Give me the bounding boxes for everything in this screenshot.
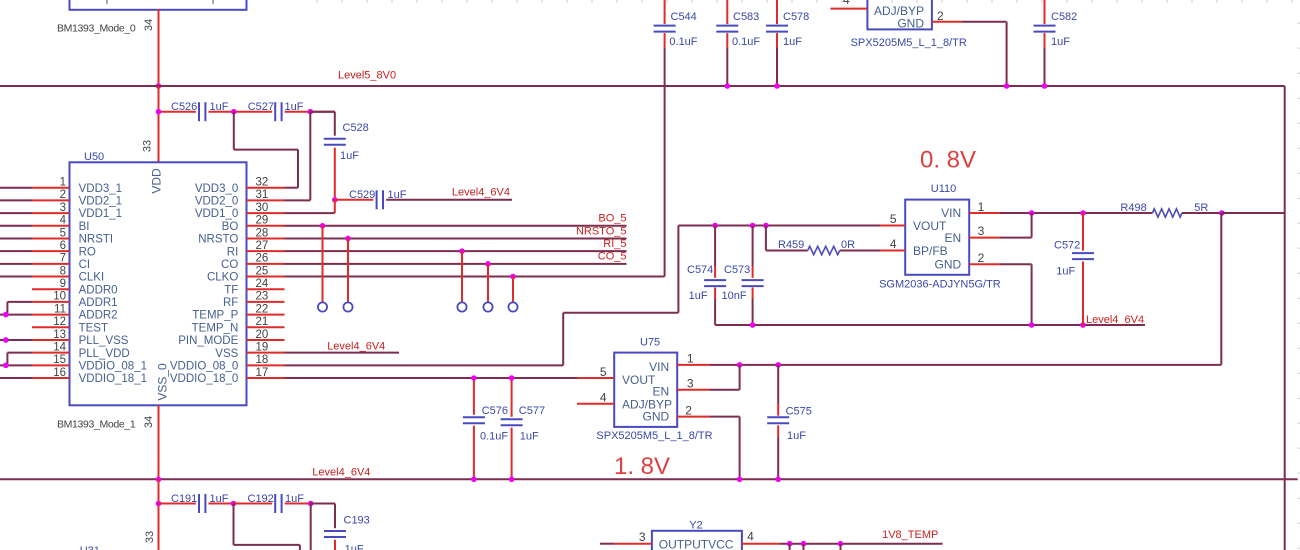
svg-text:PIN_MODE: PIN_MODE [178,335,238,347]
svg-text:2: 2 [978,251,985,265]
junction C578 on bus [774,83,780,89]
svg-text:28: 28 [256,227,269,239]
U110 pin 1 VIN wire [969,212,1152,214]
wire ADDR2 pin11 from left edge [0,314,32,316]
svg-text:C583: C583 [733,11,759,23]
svg-text:U75: U75 [640,337,660,349]
wire local rail under U110 with net label [715,324,1145,326]
svg-text:Level4_6V4: Level4_6V4 [1086,314,1144,326]
chip U? BM1393_Mode_0 (partial, cut at top) [57,0,247,35]
svg-text:BP/FB: BP/FB [913,244,948,258]
wire VDDIO_08_1 pin15 from left edge [0,364,32,366]
svg-text:BM1393_Mode_0: BM1393_Mode_0 [57,23,136,35]
junction C577 top on VDDIO_18_0 net [509,375,515,381]
svg-text:3: 3 [687,377,694,391]
capacitor C577 column [501,378,545,479]
svg-text:1uF: 1uF [689,290,708,302]
wire TEST/PLL_VSS pin13 from left edge [0,339,32,341]
junction test-point drop 4 [485,261,491,267]
capacitor C573 [722,226,764,326]
svg-text:CI: CI [79,259,91,271]
svg-text:CO_5: CO_5 [598,251,627,263]
svg-text:TEMP_N: TEMP_N [192,322,239,334]
wire drop 2 [803,544,805,550]
test point TP3 open circle [457,302,466,311]
junction C583 on bus [725,83,731,89]
svg-text:U31: U31 [80,545,100,550]
U75 pin 4 ADJ/BYP stub [577,403,614,405]
svg-text:TEST: TEST [79,322,108,334]
U75 pin 1 VIN wire [677,364,1221,366]
wire test-point drop 4 [487,264,489,302]
junction C528 bottom / C529 row [332,197,338,203]
svg-text:GND: GND [643,410,670,424]
svg-text:1uF: 1uF [210,101,229,113]
capacitor C528 [324,122,369,200]
svg-text:5: 5 [600,365,607,379]
U75 pin 5 stub [577,377,614,379]
resistor R459 0R wire to U110 pin4 BP/FB [766,226,905,255]
svg-text:U110: U110 [931,183,956,195]
test point TP1 open circle [318,302,327,311]
junction R459 branch [763,223,769,229]
junction EN tie on VIN net [1029,210,1035,216]
test point TP2 open circle [343,302,352,311]
junction C526-C527 [231,109,237,115]
svg-text:10nF: 10nF [722,290,747,302]
svg-text:RO: RO [79,246,96,258]
U110 pin 2 GND wire down to local ground rail [969,264,1031,325]
wire from C526-C527 junction to pin 32 VDD3_0 [234,112,298,188]
wire CO pin26 net to label CO_5 [285,263,627,265]
junction U75 EN tie [737,362,743,368]
svg-text:VDD: VDD [150,168,164,194]
capacitor C529 and net stub Level4_6V4 [335,189,512,209]
svg-text:ADDR0: ADDR0 [79,284,118,296]
wire R498 output to right bus vertical [1222,212,1285,214]
svg-text:CLKI: CLKI [79,272,105,284]
svg-text:1uF: 1uF [783,36,802,48]
svg-text:BI: BI [79,221,90,233]
svg-text:4: 4 [890,237,897,251]
svg-text:33: 33 [144,531,156,543]
wire test-point drop 2 [347,238,349,302]
test point TP5 open circle [508,302,517,311]
crystal/part Y2 body (cut at bottom) [652,519,742,550]
wire test-point drop 3 [461,251,463,302]
svg-text:BO: BO [222,221,239,233]
junction on pin13 net [3,337,9,343]
svg-text:1. 8V: 1. 8V [614,453,670,480]
capacitor C583 column [716,0,760,86]
chip U31 (cut at bottom) designators [80,545,100,550]
svg-text:VOUT: VOUT [622,373,656,387]
svg-text:C191: C191 [171,493,197,505]
svg-text:4: 4 [747,529,754,543]
svg-text:1uF: 1uF [285,493,304,505]
svg-text:NRSTI: NRSTI [79,234,114,246]
svg-text:1uF: 1uF [1051,36,1070,48]
svg-text:C575: C575 [786,405,812,417]
capacitor C527 [248,101,304,121]
capacitor C526 [171,101,229,121]
wires entering from left edge rows 1-8 [0,188,32,277]
svg-text:0R: 0R [841,239,855,251]
svg-text:3: 3 [639,530,646,544]
svg-text:VDD3_1: VDD3_1 [79,183,122,195]
svg-text:VDDIO_08_1: VDDIO_08_1 [79,360,147,372]
svg-text:4: 4 [600,391,607,405]
junction U110 GND on rail [1029,322,1035,328]
svg-text:U50: U50 [84,151,104,163]
Y2 pin 3 wire [600,543,652,545]
Y2 pin 4 wire 1V8_TEMP net [742,543,943,545]
junction on pin15 net [3,363,9,369]
svg-text:1uF: 1uF [787,430,806,442]
wire C527 junction to C528 [310,112,335,136]
svg-text:Level4_6V4: Level4_6V4 [312,467,370,479]
wire C192 junction to C193 [311,504,335,529]
junction drop 3 on 1V8_TEMP [838,541,844,547]
junction C577 bottom [509,477,515,483]
svg-text:R498: R498 [1120,202,1146,214]
svg-text:4: 4 [843,0,850,7]
junction C576 top on VDDIO_18_0 net [471,375,477,381]
svg-text:Level5_8V0: Level5_8V0 [338,70,396,82]
svg-text:VIN: VIN [941,206,961,220]
U75 pin 2 GND wire down to Level4 bus [677,417,739,480]
wire VDD decoupling row from pin33 column [159,86,335,162]
junction C527 right / VDD2_0 branch [308,109,314,115]
junction C572 bottom [1080,322,1086,328]
svg-text:TF: TF [224,284,238,296]
junction drop 1 on 1V8_TEMP [787,541,793,547]
svg-text:1uF: 1uF [520,431,539,443]
IC U50 BM1393_Mode_1 body [70,162,247,405]
svg-text:VSS: VSS [215,348,238,360]
capacitor C572 [1054,213,1094,325]
svg-text:1: 1 [687,352,694,366]
svg-text:BO_5: BO_5 [598,213,626,225]
svg-text:RI_5: RI_5 [603,238,626,250]
svg-text:ADDR1: ADDR1 [79,297,118,309]
svg-text:OUTPUTVCC: OUTPUTVCC [659,538,734,550]
svg-text:5R: 5R [1194,202,1208,214]
capacitor C574 [687,226,726,326]
wire VSS pin19 net [285,352,400,354]
svg-text:1uF: 1uF [285,101,304,113]
wire VDDIO_18_1 pin16 from left edge [0,377,32,379]
svg-text:5: 5 [890,212,897,226]
wire pin34 of U50 down to Level4_6V4 bus [158,405,160,479]
wire pin34 of top chip to Level5_8V0 bus [158,9,160,86]
junction on Level5_8V0 bus at x=158.5 [156,83,162,89]
U110 pin 5 VOUT wire [678,225,905,227]
wire NRSTO pin28 net to label NRSTO_5 [285,237,627,239]
junction C573 top [750,223,756,229]
junction C575 top [775,362,781,368]
junction C582 on bus [1042,83,1048,89]
svg-text:33: 33 [142,140,154,152]
net Level4_6V4 bus wire [0,478,1298,480]
svg-text:0. 8V: 0. 8V [920,147,976,174]
U50 pin name labels and pin numbers [53,177,269,386]
svg-text:SPX5205M5_L_1_8/TR: SPX5205M5_L_1_8/TR [596,430,712,442]
svg-text:VSS_0: VSS_0 [156,363,170,401]
svg-text:R459: R459 [778,239,804,251]
svg-text:C528: C528 [343,122,369,134]
wire from C527 junction down to pin 31 VDD2_0 [285,112,311,201]
wire drop 3 [840,544,842,550]
U75 pin 3 EN wire tied to VIN [677,365,739,390]
svg-text:CO: CO [221,259,238,271]
svg-text:C573: C573 [724,264,750,276]
svg-text:3: 3 [978,224,985,238]
svg-text:C577: C577 [519,405,545,417]
svg-text:VDD3_0: VDD3_0 [195,183,238,195]
capacitor C582 column [1034,0,1078,86]
capacitor C544 column (to CLKO) [654,0,698,277]
svg-text:5: 5 [60,227,66,239]
svg-text:NRSTO: NRSTO [198,234,238,246]
capacitor C576 column [463,378,509,479]
wire VDDIO_08_0 pin18 net to U110 VOUT [285,226,679,366]
svg-text:SPX5205M5_L_1_8/TR: SPX5205M5_L_1_8/TR [851,37,967,49]
wire PLL_VDD pin14 branch [7,353,32,366]
junction C575 bottom [775,477,781,483]
junction ADDR1/ADDR2 net [3,312,9,318]
capacitor C192 [234,493,311,513]
junction drop 2 on 1V8_TEMP [801,541,807,547]
capacitor C191 [159,493,234,513]
U50 left pin stubs (pins 1-16) [32,188,70,378]
capacitor C575 column [767,365,812,479]
svg-text:34: 34 [143,19,155,31]
svg-text:CLKO: CLKO [207,272,238,284]
wire CLKO pin25 net to C544 column [285,276,665,278]
capacitor C578 column [766,0,809,86]
svg-text:C529: C529 [349,189,375,201]
svg-text:1uF: 1uF [345,544,364,550]
svg-text:34: 34 [143,416,155,428]
svg-text:PLL_VDD: PLL_VDD [79,348,130,360]
svg-text:VDDIO_18_0: VDDIO_18_0 [170,373,238,385]
svg-text:TEMP_P: TEMP_P [192,310,238,322]
svg-text:VDD1_0: VDD1_0 [195,208,238,220]
svg-text:Level4_6V4: Level4_6V4 [327,341,385,353]
wire Level4 bus down to U31 pin 33 column [158,479,160,550]
svg-text:RI: RI [227,246,239,258]
svg-text:C582: C582 [1051,11,1077,23]
svg-text:C544: C544 [671,11,697,23]
svg-text:VOUT: VOUT [913,219,947,233]
pin 4 wire of top regulator ADJ/BYP [830,8,867,10]
capacitor C193 [324,515,370,550]
svg-text:1uF: 1uF [388,189,407,201]
junction C191-C192 [231,501,237,507]
svg-text:0.1uF: 0.1uF [669,36,697,48]
wire C191 junction branch down to U31 [234,504,300,550]
junction C192 right [308,501,314,507]
junction test-point drop 2 [345,236,351,242]
svg-text:RF: RF [223,297,238,309]
svg-text:GND: GND [897,16,924,30]
svg-text:Level4_6V4: Level4_6V4 [452,186,510,198]
svg-text:PLL_VSS: PLL_VSS [79,335,129,347]
svg-text:1uF: 1uF [340,150,359,162]
wire R498 output down to U75 VIN net [1220,213,1222,365]
svg-text:Y2: Y2 [689,519,702,531]
svg-text:1uF: 1uF [1056,266,1075,278]
svg-text:0.1uF: 0.1uF [480,431,508,443]
svg-text:C572: C572 [1054,240,1080,252]
svg-text:SGM2036-ADJYN5G/TR: SGM2036-ADJYN5G/TR [879,279,1001,291]
junction C576 bottom [471,477,477,483]
svg-text:C578: C578 [783,11,809,23]
junction C574 top [712,223,718,229]
svg-text:C526: C526 [171,101,197,113]
svg-text:1V8_TEMP: 1V8_TEMP [882,529,938,541]
wire C192 junction branch down to U31 [310,504,312,550]
svg-text:BM1393_Mode_1: BM1393_Mode_1 [57,419,136,431]
U50 right pin stubs (pins 17-32) [247,188,285,378]
junction test-point drop 3 [459,248,465,254]
svg-text:NRSTO_5: NRSTO_5 [576,225,627,237]
resistor R498 5R on VIN net [1120,202,1221,217]
svg-text:C192: C192 [248,493,274,505]
svg-text:0.1uF: 0.1uF [732,36,760,48]
svg-text:VDD1_1: VDD1_1 [79,208,122,220]
wire test-point drop 1 [322,226,324,303]
wire RI pin27 net to label RI_5 [285,250,627,252]
svg-text:ADDR2: ADDR2 [79,310,118,322]
svg-text:1uF: 1uF [210,493,229,505]
junction U75 GND on Level4 bus [737,477,743,483]
wire ADDR1 pin10 branch [7,302,32,315]
junction test-point drop 1 [320,223,326,229]
svg-text:C527: C527 [248,101,274,113]
junction C572 top [1080,210,1086,216]
junction test-point drop 5 [510,274,516,280]
svg-text:EN: EN [945,231,962,245]
regulator U110 body [879,183,1001,291]
junction U50 pin34 on Level4 bus [156,477,162,483]
svg-text:VDD2_1: VDD2_1 [79,195,122,207]
wire C529 junction down to pin 30 VDD1_0 [285,200,335,213]
test point TP4 open circle [483,302,492,311]
svg-text:GND: GND [935,258,962,272]
svg-text:C576: C576 [482,405,508,417]
wire VDDIO_18_0 pin17 net to U75 pin5 [285,377,615,379]
junction C573 bottom [750,322,756,328]
svg-text:VDDIO_18_1: VDDIO_18_1 [79,373,147,385]
junction pin33 column / cap row [156,109,162,115]
svg-text:1: 1 [978,200,985,214]
regulator U? SPX5205M5 (partial, cut at top) body [851,0,967,49]
svg-text:EN: EN [653,384,670,398]
wire drop 1 [789,544,791,550]
svg-text:VDD2_0: VDD2_0 [195,195,238,207]
U110 pin 3 EN wire tied to VIN [969,213,1031,238]
junction R498 output [1219,210,1225,216]
wire test-point drop 5 [512,277,514,303]
svg-text:VDDIO_08_0: VDDIO_08_0 [170,360,238,372]
svg-text:C574: C574 [687,264,713,276]
pin 2 GND wire of top regulator to bus [932,22,1007,86]
junction cap row C191 [156,501,162,507]
regulator U75 body [596,337,712,443]
svg-text:C193: C193 [344,515,370,527]
wire BO pin29 net to label BO_5 [285,225,627,227]
junction GND drop on Level5 bus [1004,83,1010,89]
